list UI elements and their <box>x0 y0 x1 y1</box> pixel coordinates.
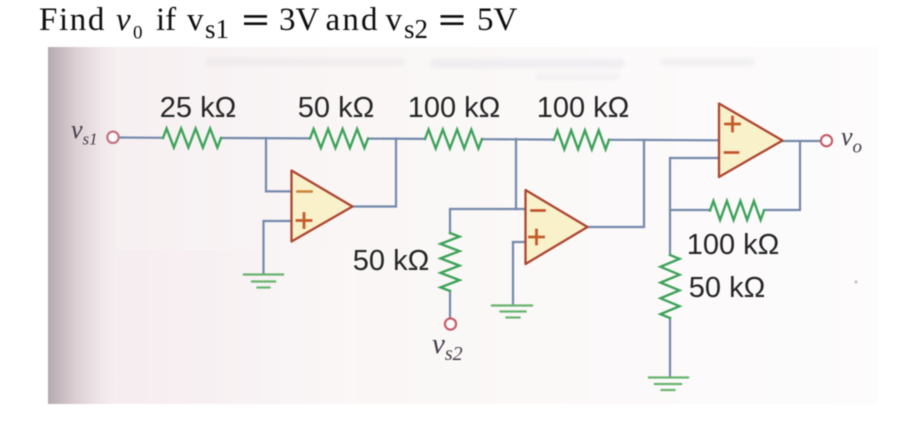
resistor R2 50k zigzag <box>310 129 368 148</box>
svg-text:s1: s1 <box>205 14 229 44</box>
node vo terminal <box>821 135 832 146</box>
svg-text:v: v <box>116 2 131 38</box>
op-amp U2 <box>526 190 588 264</box>
svg-text:100 kΩ: 100 kΩ <box>537 92 630 124</box>
resistor R3 100k zigzag <box>425 130 482 149</box>
svg-text:50 kΩ: 50 kΩ <box>298 92 375 124</box>
title: Find v0 if vs1 = 3V and vs2 = 5V <box>39 2 518 44</box>
wire: U1 noninverting input to ground <box>264 221 292 274</box>
svg-text:3V: 3V <box>279 2 320 38</box>
wire: R7 bottom to ground <box>669 318 671 377</box>
wire: rail segment R2 to R3 <box>368 138 425 140</box>
wire: U2 noninverting input to ground <box>513 242 526 305</box>
svg-text:100 kΩ: 100 kΩ <box>408 92 501 124</box>
wire: U1 output up to rail <box>353 139 397 207</box>
resistor R1 25k zigzag <box>163 129 221 148</box>
node vs1 terminal <box>107 132 118 143</box>
ground G2 <box>492 306 532 318</box>
wire: rail segment vs1 to R1 <box>119 136 164 139</box>
svg-text:50 kΩ: 50 kΩ <box>689 272 766 304</box>
wire: U2 output up to rail <box>588 140 645 227</box>
svg-text:Find: Find <box>39 2 106 38</box>
svg-text:0: 0 <box>133 23 143 44</box>
op-amp U3 <box>719 104 783 178</box>
svg-text:if: if <box>156 2 176 38</box>
resistor R5 50k vertical zigzag <box>441 233 460 291</box>
wire: vs2 branch top horizontal <box>450 209 516 233</box>
wire: feedback row left of R6 <box>670 209 710 211</box>
wire: U3 output to vo terminal <box>783 140 820 142</box>
svg-text:and: and <box>326 2 380 38</box>
svg-text:v: v <box>187 2 204 38</box>
wire: rail segment R3 to R4 <box>482 138 554 141</box>
svg-text:5V: 5V <box>477 2 518 38</box>
ghost bleed-through marks <box>205 58 755 80</box>
svg-text:s2: s2 <box>404 14 428 44</box>
wire: R5 bottom to vs2 terminal <box>449 291 451 318</box>
wire: U3 inverting input branch <box>670 158 719 255</box>
svg-text:25 kΩ: 25 kΩ <box>160 92 237 124</box>
ground G3 <box>649 378 688 391</box>
resistor R6 100k feedback zigzag <box>710 201 764 220</box>
ground G1 <box>244 275 283 288</box>
wire: feedback row right of R6 up to output <box>764 141 800 210</box>
wire: rail segment R1 to R2 <box>221 137 310 140</box>
resistor R4 100k zigzag <box>554 130 609 149</box>
wire: junction J1 down to U1 inverting input <box>266 138 291 191</box>
node vs2 terminal <box>445 318 456 329</box>
svg-text:100 kΩ: 100 kΩ <box>687 229 780 261</box>
svg-text:v: v <box>386 2 403 38</box>
wire: junction J3 down to U2 inverting input <box>516 139 526 209</box>
speck artifact <box>854 280 857 283</box>
scanned figure background <box>0 0 1 1</box>
op-amp U1 <box>292 171 353 242</box>
wire: rail segment R4 to U3 <box>609 139 719 142</box>
resistor R7 50k vertical zigzag <box>661 255 680 318</box>
svg-text:50 kΩ: 50 kΩ <box>353 245 430 277</box>
